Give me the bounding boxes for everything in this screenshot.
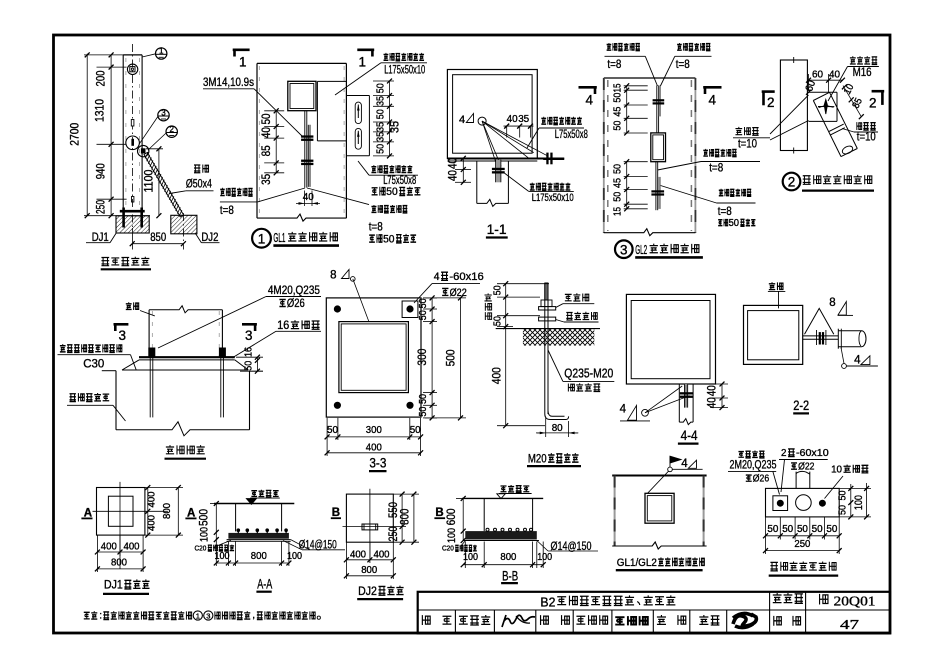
3-3 outer dim 500 — [425, 295, 466, 420]
label threaded length vertical — [484, 293, 491, 301]
beam web below — [678, 384, 680, 422]
column base plate — [120, 210, 145, 213]
svg-text:50: 50 — [611, 164, 623, 174]
washer square with bolt dot — [773, 496, 788, 511]
svg-text:50: 50 — [417, 394, 429, 404]
svg-text:2-2: 2-2 — [793, 397, 809, 413]
dim column segments 200/1310/940/250 — [93, 52, 127, 218]
svg-text:4: 4 — [586, 93, 594, 108]
svg-text:t=8: t=8 — [709, 161, 723, 175]
column side plate strip — [307, 125, 309, 187]
washer square top-right — [402, 301, 418, 318]
svg-text:500: 500 — [197, 509, 211, 526]
label zhicheng brace — [194, 165, 200, 173]
svg-text:3M14,10.9s: 3M14,10.9s — [203, 77, 254, 89]
svg-text:50: 50 — [492, 285, 504, 295]
cell zhang chaoyun — [576, 616, 585, 624]
section B-B — [442, 485, 598, 583]
svg-text:400: 400 — [101, 541, 117, 553]
svg-text:50: 50 — [386, 186, 397, 198]
svg-text:M20: M20 — [528, 451, 547, 465]
cell tang qiming — [459, 616, 468, 624]
cell she ji — [657, 615, 666, 624]
svg-text::: : — [99, 611, 102, 622]
brace tube horizontal — [838, 330, 861, 332]
svg-text:40: 40 — [507, 113, 518, 125]
svg-text:35: 35 — [518, 113, 529, 125]
dim 80 bottom — [536, 418, 578, 437]
svg-text:250: 250 — [94, 200, 108, 214]
threaded top — [545, 283, 548, 300]
ground level label — [251, 491, 257, 497]
signature 1 — [502, 615, 535, 627]
svg-text:47: 47 — [840, 617, 859, 632]
right bolt — [546, 153, 548, 165]
svg-text:GL2: GL2 — [635, 242, 647, 257]
signature 2 bold — [615, 617, 624, 624]
label steel column 2-2 — [769, 282, 775, 289]
GL2 column outline — [604, 77, 696, 79]
right dims 50/50/100 — [837, 483, 871, 519]
title detail 2 — [783, 173, 801, 191]
section marker 1 top-left — [233, 48, 250, 51]
label adjust nut — [566, 313, 572, 321]
svg-text:DJ1: DJ1 — [92, 232, 109, 244]
B-B bottom dims 100/800/100 — [461, 542, 553, 569]
GL2 column inner dashed — [607, 80, 609, 231]
svg-text:850: 850 — [150, 230, 166, 244]
GL1 beam end square plate — [288, 81, 316, 110]
svg-text:L175x50x10: L175x50x10 — [532, 192, 574, 204]
svg-text:40: 40 — [705, 385, 719, 396]
svg-text:1: 1 — [196, 612, 200, 621]
svg-text:400: 400 — [146, 515, 158, 531]
svg-text:C30: C30 — [83, 357, 104, 371]
cell tu ji hao — [773, 593, 782, 603]
svg-text:40: 40 — [303, 191, 314, 203]
base plate rect — [766, 488, 840, 517]
column rectangle — [780, 60, 807, 151]
dim 40 40 left of 1-1 — [446, 156, 472, 185]
svg-text:80: 80 — [552, 422, 563, 434]
label column plate lower right — [719, 189, 724, 196]
web break symbol — [477, 199, 509, 206]
bedding line B-B — [463, 540, 539, 542]
svg-text:40: 40 — [446, 170, 460, 181]
section marker 3 right — [242, 323, 257, 326]
DJ1 inner rect — [108, 496, 133, 526]
foundation block DJ2 hatched — [171, 215, 197, 234]
DJ2 square — [346, 494, 393, 542]
ground line with hatch — [496, 328, 600, 330]
beam angle rectangle L175x50x10 — [316, 81, 318, 140]
svg-text:100: 100 — [199, 527, 211, 542]
svg-text:t=8: t=8 — [607, 57, 621, 71]
B-B cut line — [343, 526, 407, 528]
svg-text:1-1: 1-1 — [487, 221, 507, 237]
column tube inner square — [453, 75, 532, 154]
gusset plate rect — [809, 91, 838, 93]
svg-text:3-3: 3-3 — [369, 455, 386, 471]
weld flag banner 4 — [668, 467, 673, 472]
svg-text:50: 50 — [417, 406, 429, 416]
ground level label B-B — [500, 486, 506, 492]
upper plate strips — [656, 85, 658, 132]
column (steel post) outline — [122, 55, 124, 211]
section A-A — [195, 490, 346, 592]
svg-text:2: 2 — [781, 447, 787, 459]
bolt cluster — [680, 392, 693, 394]
bolt nut vertical — [819, 332, 821, 344]
column bottom with break — [612, 542, 706, 549]
tube coming down — [795, 472, 797, 489]
DJ2 vertical centerline — [369, 489, 371, 560]
svg-text:B-B: B-B — [502, 568, 518, 583]
label beam plate top-left — [607, 43, 612, 50]
column centerline — [132, 44, 134, 228]
svg-text:250: 250 — [794, 538, 810, 550]
cell ye ci — [774, 616, 782, 626]
lower nut washer — [539, 317, 556, 321]
label steel column — [126, 302, 132, 309]
svg-text:50: 50 — [375, 109, 387, 119]
svg-text:t=8: t=8 — [718, 204, 732, 218]
svg-text:50: 50 — [410, 424, 421, 436]
svg-text:4: 4 — [434, 271, 440, 283]
svg-text:2700: 2700 — [67, 122, 81, 145]
welded beam square — [645, 493, 674, 523]
svg-text:50: 50 — [797, 523, 808, 535]
svg-text:Ø50x4: Ø50x4 — [186, 179, 212, 191]
section 2-2 — [744, 282, 878, 413]
svg-text:2: 2 — [169, 125, 174, 134]
svg-text:300: 300 — [415, 348, 429, 365]
anchor bolt dots — [334, 306, 340, 312]
DJ1 plan view — [81, 482, 196, 594]
cell shen he — [422, 615, 430, 625]
vertical plate below — [496, 160, 501, 183]
svg-text:4: 4 — [459, 114, 465, 126]
DJ1 bottom dims 400/400/800 — [95, 535, 146, 572]
cell yu 20Q01 — [820, 594, 828, 605]
svg-text:4-4: 4-4 — [681, 427, 698, 443]
upper nut washer — [539, 307, 556, 310]
svg-text:t=8: t=8 — [676, 57, 690, 71]
section 1-1 — [446, 70, 589, 238]
svg-text:35: 35 — [388, 121, 402, 133]
svg-text:50: 50 — [259, 113, 273, 124]
diagonal brace member — [144, 152, 184, 217]
label column plate top-right — [677, 43, 682, 50]
svg-text:Ø26: Ø26 — [753, 473, 770, 485]
label connection plate left — [735, 127, 742, 135]
detail bubble 2 — [148, 125, 177, 150]
brace joint circle — [138, 145, 149, 156]
GL welded joint detail — [612, 456, 706, 570]
wall verticals B-B — [483, 498, 485, 531]
label concrete foundation — [70, 394, 76, 402]
slotted hole lower with arrow — [355, 128, 361, 149]
svg-text:50: 50 — [812, 523, 823, 535]
lower bolt — [651, 190, 664, 192]
bolt group lower — [301, 160, 313, 162]
svg-text:800: 800 — [500, 551, 516, 563]
anchor dims 50/50/400 — [490, 281, 550, 428]
cell jiao dui — [541, 615, 549, 625]
detail brace and column joint — [733, 56, 884, 190]
dim 2700 vertical — [67, 52, 150, 218]
weld flag 4 bottom — [842, 364, 847, 369]
B-B left dims 600/100 — [444, 496, 469, 543]
leader fan lines — [482, 121, 496, 162]
slotted hole upper with arrow — [355, 102, 361, 124]
label column angle right — [371, 165, 376, 172]
svg-text:4: 4 — [709, 93, 717, 108]
svg-text:L175x50x10: L175x50x10 — [384, 63, 425, 77]
svg-text:50: 50 — [611, 120, 623, 130]
A-A left dims 500/100 — [197, 501, 223, 542]
column dividers row2 — [454, 610, 456, 633]
svg-text:50: 50 — [611, 192, 623, 202]
svg-text:GL1: GL1 — [273, 230, 285, 245]
svg-text:100: 100 — [463, 551, 478, 563]
foundation block — [115, 371, 117, 430]
section marker 1 top-right — [357, 48, 374, 51]
top bolt circle on column — [127, 64, 137, 74]
detail GL2 and column joint — [579, 43, 761, 258]
svg-text:1: 1 — [159, 47, 164, 56]
base plate square — [326, 298, 421, 417]
dim 16 50 right — [236, 347, 263, 374]
mid joint circle GL2 level — [126, 136, 140, 150]
svg-text:GL1/GL2: GL1/GL2 — [617, 557, 657, 569]
svg-text:50: 50 — [383, 234, 394, 246]
svg-text:B2: B2 — [540, 596, 555, 610]
DJ2 inner slot rect — [362, 524, 378, 530]
svg-text:35: 35 — [375, 132, 387, 142]
section marker 4 right — [703, 86, 721, 89]
svg-text:2: 2 — [767, 95, 775, 110]
bolt L bottom leg — [545, 414, 569, 420]
svg-text:-60x10: -60x10 — [796, 447, 829, 459]
DJ1 square — [97, 488, 145, 536]
svg-text:400: 400 — [366, 442, 382, 454]
column inner dashed edges — [258, 66, 260, 216]
bolt on plate — [492, 168, 505, 170]
bedding layer line — [227, 539, 291, 541]
side elevation view 结构侧面图 — [67, 44, 219, 269]
svg-text:35: 35 — [375, 96, 387, 106]
lower plate strips — [655, 162, 657, 211]
tube inner square — [631, 301, 710, 379]
bottom plate horizontal — [447, 158, 564, 160]
DJ2 centerline — [182, 213, 184, 246]
GL2 dim upper 15/50/45/50 — [611, 83, 647, 135]
GL1 bottom dim 40 — [296, 191, 320, 207]
grout wedge trapezoid — [122, 360, 248, 370]
anchor bolts into DJ1 — [122, 208, 125, 228]
svg-text:M16: M16 — [853, 65, 872, 79]
svg-text:45: 45 — [611, 178, 623, 188]
svg-text:Ø26: Ø26 — [287, 298, 305, 310]
rebar dots B-B — [486, 528, 489, 531]
svg-text:800: 800 — [361, 564, 377, 576]
title column base — [166, 445, 174, 454]
svg-text:300: 300 — [366, 424, 382, 436]
bolt rod horizontal — [803, 335, 839, 337]
svg-text:50: 50 — [492, 316, 504, 326]
A-A cut line — [93, 510, 168, 512]
svg-text:85: 85 — [259, 145, 273, 156]
label beam angle below — [530, 183, 535, 190]
foundation block DJ1 hatched — [116, 216, 149, 233]
dim 10 85 diagonal — [842, 82, 865, 119]
svg-text:15: 15 — [611, 207, 623, 216]
GL1 right dim stack — [373, 79, 402, 159]
svg-text:100: 100 — [215, 550, 230, 562]
seal plate lines across tube — [829, 124, 844, 132]
svg-text:-60x16: -60x16 — [449, 271, 483, 283]
big weld triangle — [805, 308, 834, 334]
svg-text:DJ2: DJ2 — [201, 232, 218, 244]
wall verticals — [235, 504, 237, 532]
svg-text:50: 50 — [767, 523, 778, 535]
svg-text:L75x50x8: L75x50x8 — [555, 127, 588, 141]
svg-text:DJ1: DJ1 — [104, 578, 123, 592]
rebar dots — [237, 530, 239, 534]
svg-text:2: 2 — [788, 175, 796, 190]
section marker 2 right — [872, 90, 885, 93]
column base detail 钢柱柱脚 — [58, 285, 322, 459]
svg-text:40: 40 — [829, 69, 840, 81]
label beam angle top right — [384, 53, 389, 60]
brace foundation joint detail — [728, 447, 871, 575]
detail GL1 and column joint — [203, 50, 427, 248]
column dividers row1 — [769, 592, 771, 634]
bolt rod — [544, 283, 546, 414]
title brace foundation joint — [770, 562, 777, 571]
svg-text:40: 40 — [259, 127, 273, 138]
svg-text:8: 8 — [330, 270, 336, 282]
svg-text:45: 45 — [611, 106, 623, 116]
svg-text:3: 3 — [620, 243, 628, 258]
svg-text:50: 50 — [782, 523, 793, 535]
svg-text:3: 3 — [119, 328, 127, 343]
label beam plate left — [220, 188, 225, 196]
svg-text:800: 800 — [161, 503, 173, 519]
svg-text:200: 200 — [94, 70, 108, 86]
svg-text:35: 35 — [259, 174, 273, 185]
svg-text:1: 1 — [239, 55, 247, 70]
column inner dashed — [151, 311, 153, 356]
title detail 3 — [615, 240, 633, 258]
column inner dashed edges sideview — [125, 58, 127, 208]
tube outer square 2-2 — [744, 305, 803, 364]
svg-text:t=10: t=10 — [738, 137, 757, 151]
plate strip below — [684, 384, 687, 408]
svg-text:800: 800 — [251, 550, 267, 562]
svg-text:1: 1 — [359, 55, 367, 70]
svg-text:100: 100 — [287, 550, 302, 562]
label seal plate — [857, 122, 862, 130]
3-3 bottom dims 50/300/50 and 400 — [325, 418, 423, 456]
svg-text:940: 940 — [94, 163, 108, 179]
section marker 3 left — [114, 323, 129, 326]
brace tube rotated — [813, 101, 841, 157]
svg-text:250: 250 — [386, 526, 400, 541]
cell li yong — [699, 615, 708, 624]
GL1 left dim 50/40/85/35 — [259, 108, 284, 185]
svg-text:400: 400 — [490, 367, 504, 384]
column top edge — [612, 475, 706, 477]
svg-text:600: 600 — [444, 508, 458, 525]
svg-text:50: 50 — [729, 218, 740, 229]
anchor bolt right — [219, 348, 226, 358]
GL2 beam rect middle — [651, 133, 666, 162]
svg-text:t=8: t=8 — [220, 203, 234, 217]
svg-text:800: 800 — [111, 557, 127, 569]
svg-text:,: , — [252, 610, 255, 621]
svg-text:C20: C20 — [442, 544, 454, 553]
ground line B-B — [462, 497, 543, 499]
label column angle above — [541, 117, 546, 124]
title detail 1 — [252, 229, 271, 248]
svg-text:t=8: t=8 — [369, 220, 383, 234]
dim 1100 brace height — [142, 146, 164, 218]
label common bolt M16 — [850, 56, 856, 64]
hole circle — [796, 495, 812, 511]
dim 40 35 top — [504, 113, 534, 137]
column side edges dashed gray — [614, 476, 616, 547]
svg-text:400: 400 — [350, 549, 366, 561]
svg-text:50: 50 — [611, 92, 623, 102]
tube outer square — [626, 294, 715, 384]
table outline — [418, 592, 890, 634]
column top break — [149, 306, 222, 313]
svg-text:t=10: t=10 — [857, 130, 876, 144]
svg-text:L75x50x8: L75x50x8 — [383, 173, 416, 187]
dim 40 40 right — [697, 382, 728, 411]
slab dark band B-B — [465, 531, 537, 539]
section marker 4 left — [579, 86, 597, 89]
svg-text:50: 50 — [837, 490, 849, 500]
svg-text:20Q01: 20Q01 — [834, 593, 876, 608]
svg-text:3: 3 — [245, 328, 253, 343]
svg-text:16: 16 — [277, 320, 289, 332]
GL2 dim lower 50/45/50/15 — [611, 159, 647, 216]
svg-text:Ø22: Ø22 — [798, 460, 815, 472]
dim 60 40 top — [806, 69, 845, 93]
svg-text:3: 3 — [161, 108, 166, 117]
ground line — [214, 503, 294, 505]
svg-text:C20: C20 — [195, 544, 207, 553]
svg-text:40: 40 — [705, 397, 719, 408]
svg-text:500: 500 — [443, 349, 457, 366]
DJ2 right dims 550/250/800 — [386, 492, 419, 545]
anchor bolt left — [148, 348, 155, 358]
section 4-4 — [620, 294, 728, 443]
svg-text:400: 400 — [374, 549, 390, 561]
svg-text:15: 15 — [611, 83, 623, 92]
tube end ellipse — [862, 331, 867, 347]
signature 3 blob — [733, 613, 756, 627]
svg-text:50: 50 — [327, 424, 338, 436]
3-3 right dim 50/50/300/50/50 — [415, 295, 437, 420]
label double nut — [565, 294, 572, 300]
section 3-3 base plate plan — [325, 270, 484, 472]
column centerline ticks — [793, 57, 795, 63]
label column plate right — [371, 205, 376, 212]
